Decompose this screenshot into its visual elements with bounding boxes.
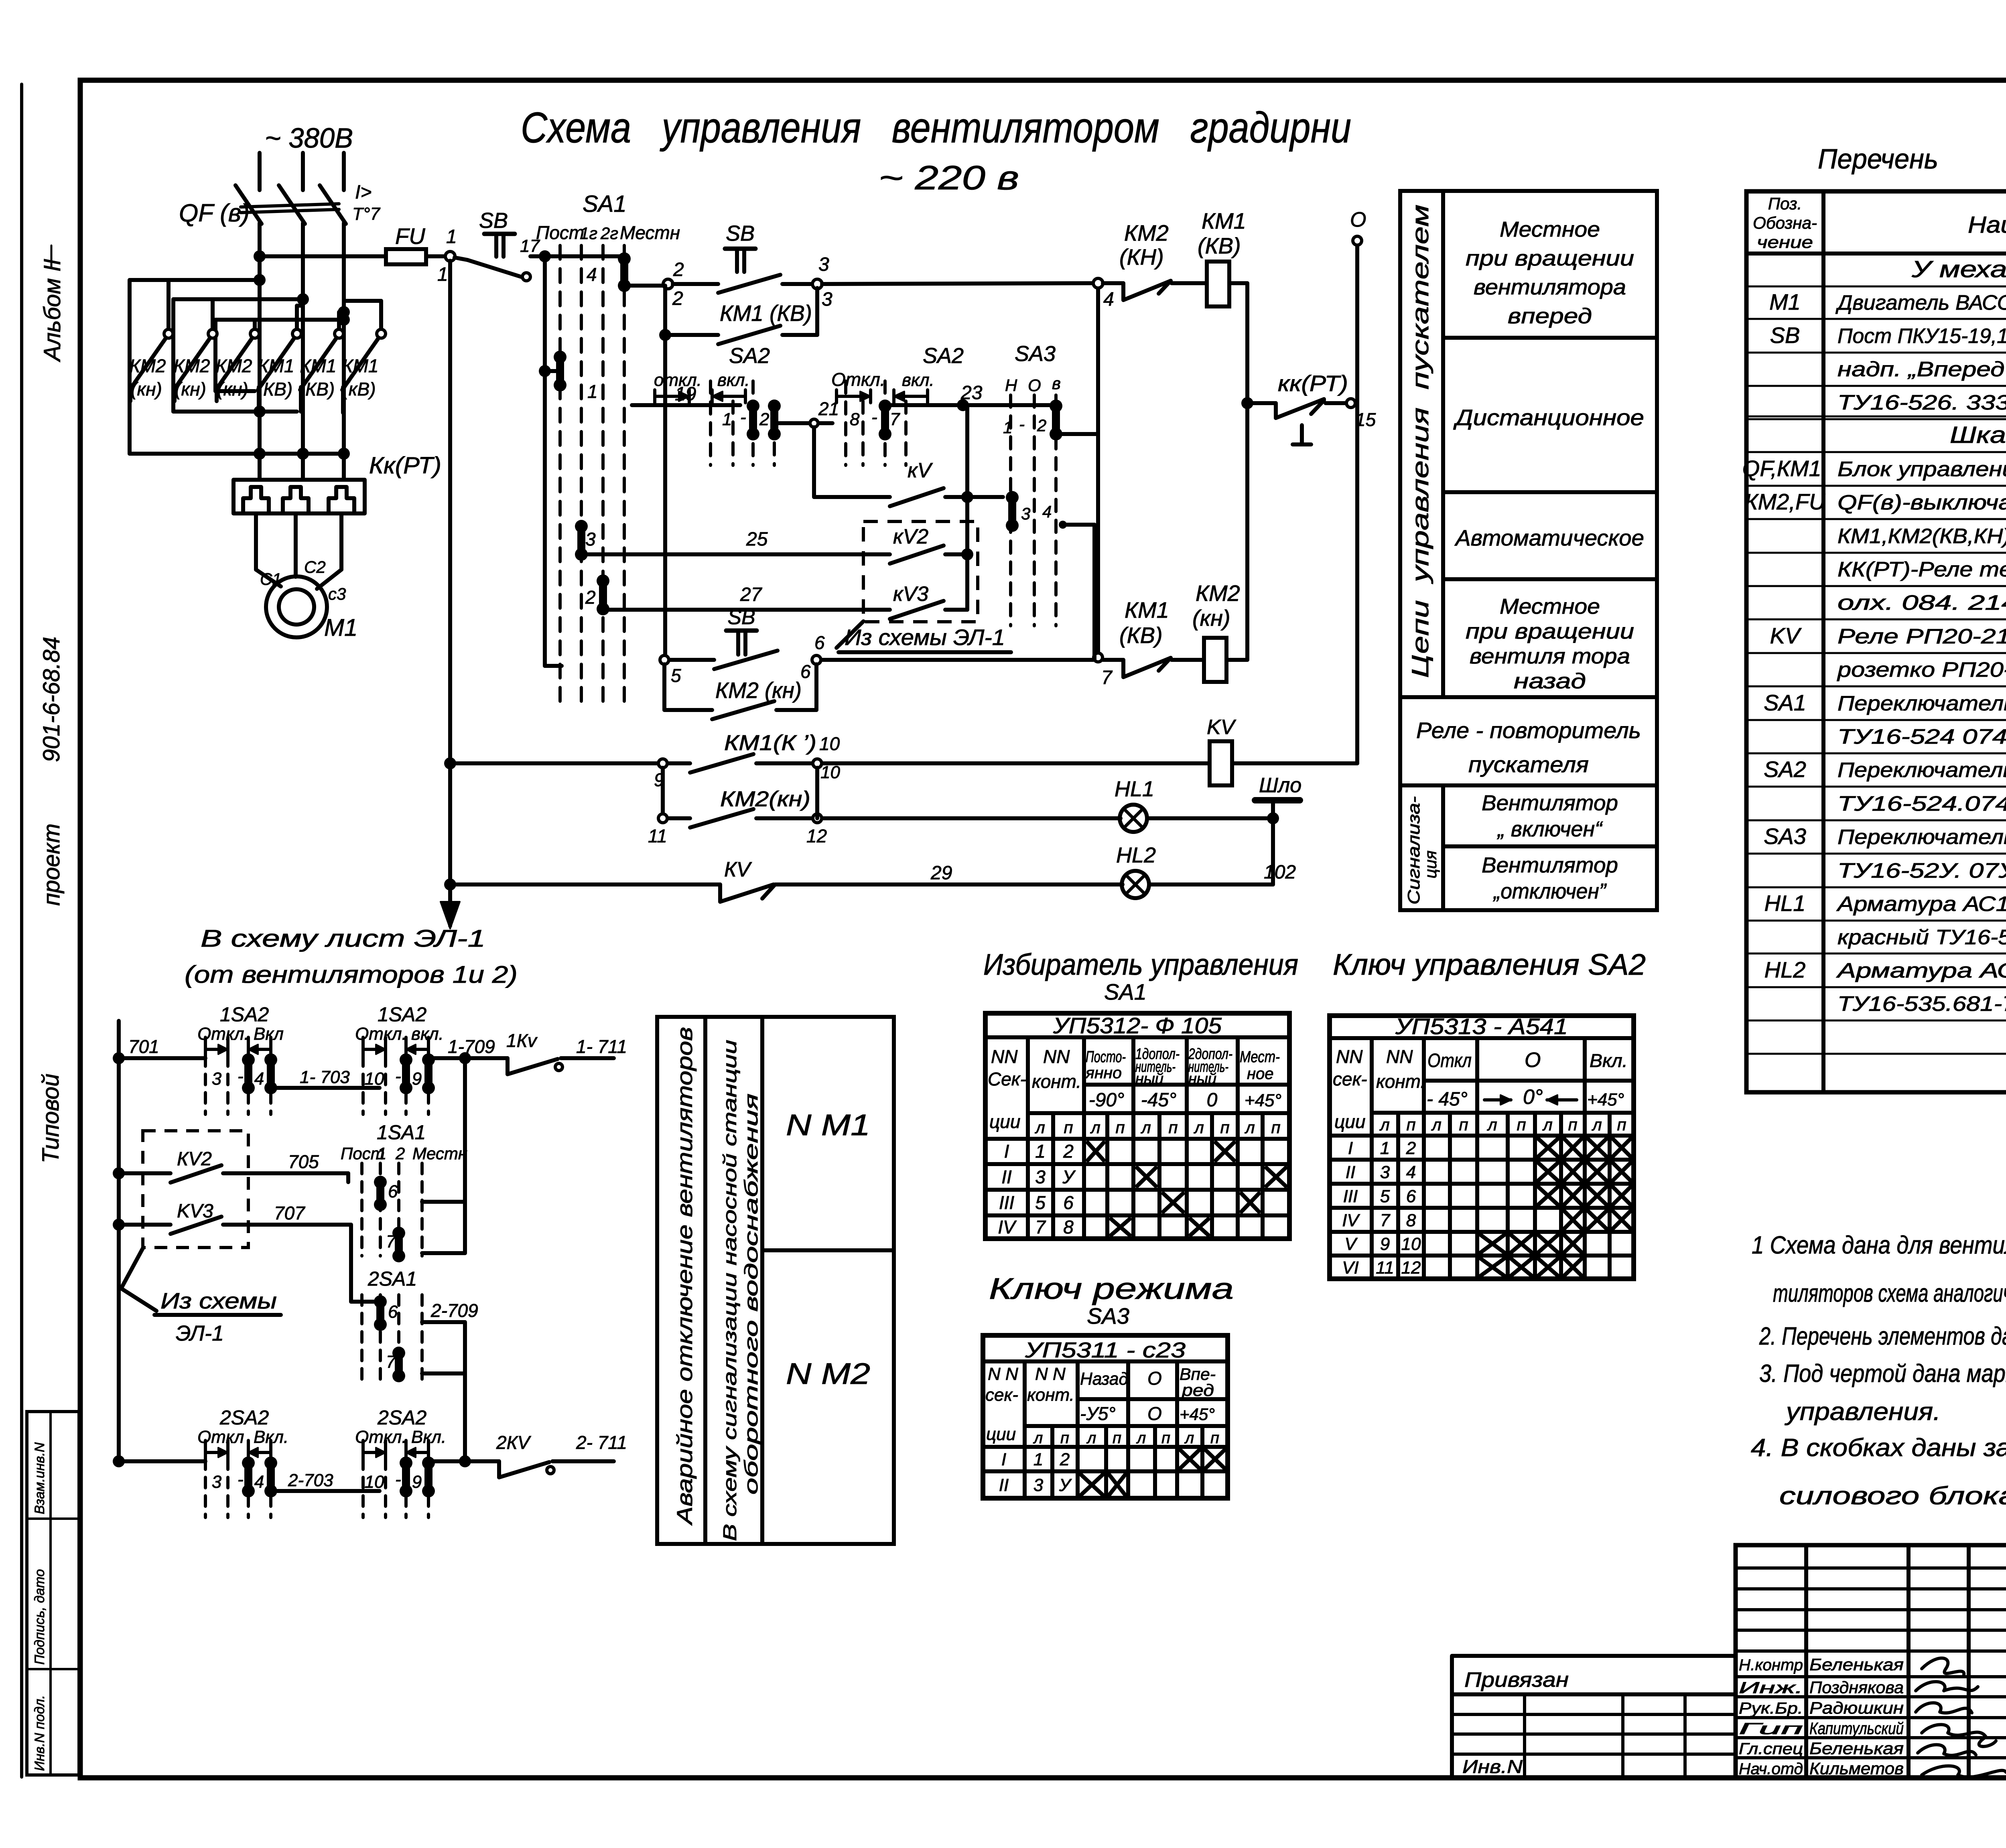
svg-text:сек-: сек- bbox=[1333, 1069, 1367, 1089]
svg-text:6: 6 bbox=[800, 661, 811, 682]
vertical SHLO to HL2 bbox=[1271, 818, 1275, 884]
svg-text:сек-: сек- bbox=[985, 1385, 1018, 1405]
title block left columns verticals bbox=[1804, 1545, 1808, 1778]
svg-text:М1: М1 bbox=[1769, 289, 1801, 314]
svg-text:7: 7 bbox=[1101, 667, 1113, 688]
svg-text:С2: С2 bbox=[304, 558, 326, 576]
push button SB (forward) bbox=[718, 275, 780, 293]
title block main frame bbox=[1736, 1545, 2006, 1778]
svg-text:2: 2 bbox=[673, 259, 684, 280]
svg-text:С1: С1 bbox=[260, 570, 282, 588]
power contact &#1050;&#1052;1(&#1050;&#1042;) #5 bbox=[337, 312, 341, 330]
svg-text:2: 2 bbox=[1406, 1138, 1416, 1158]
svg-text:Местное: Местное bbox=[1500, 594, 1600, 619]
node 12 bbox=[756, 816, 812, 820]
svg-text:„ включен“: „ включен“ bbox=[1497, 817, 1603, 841]
node 6 bbox=[812, 655, 821, 664]
SA2 right group dashed lines bbox=[844, 381, 847, 465]
svg-text:SB: SB bbox=[479, 209, 508, 233]
svg-text:102: 102 bbox=[1264, 862, 1296, 883]
thermal contact KK(RT) bbox=[1274, 403, 1278, 418]
title block upper small rows bbox=[1736, 1566, 2006, 1570]
svg-text:+45°: +45° bbox=[1587, 1090, 1624, 1110]
svg-text:-90°: -90° bbox=[1089, 1089, 1125, 1111]
svg-text:Арматура АС12013У2 ~ 220В,: Арматура АС12013У2 ~ 220В, bbox=[1836, 959, 2006, 982]
2SA1 contact 6 bbox=[376, 1302, 384, 1325]
svg-text:Двигатель ВАСО-10-19-16,ТУ16-5: Двигатель ВАСО-10-19-16,ТУ16-510,365-77 bbox=[1835, 291, 2006, 314]
svg-text:О: О bbox=[1525, 1049, 1541, 1072]
svg-text:п: п bbox=[1517, 1115, 1526, 1134]
wire to KM1 coil bbox=[1172, 281, 1207, 285]
svg-text:КМ1: КМ1 bbox=[1202, 208, 1246, 233]
svg-text:п: п bbox=[1617, 1115, 1626, 1134]
switch table SA2 frame bbox=[1330, 1016, 1634, 1279]
svg-text:п: п bbox=[1113, 1429, 1121, 1447]
svg-text:1: 1 bbox=[1033, 1450, 1043, 1469]
svg-text:п: п bbox=[1220, 1118, 1229, 1137]
svg-text:Вкл.: Вкл. bbox=[1590, 1050, 1628, 1071]
svg-text:ТУ16-524 074-75: ТУ16-524 074-75 bbox=[1837, 725, 2006, 749]
svg-text:л: л bbox=[1086, 1429, 1096, 1447]
wire: fuse to node 1 bbox=[426, 254, 446, 258]
svg-text:2SА1: 2SА1 bbox=[367, 1268, 417, 1290]
SA1 column lines bbox=[1026, 1037, 1030, 1239]
svg-text:ред: ред bbox=[1181, 1381, 1214, 1400]
contact KM2(KN) NC bbox=[1103, 281, 1123, 285]
svg-text:2: 2 bbox=[1060, 1450, 1070, 1469]
svg-text:HL2: HL2 bbox=[1764, 957, 1806, 982]
svg-text:при вращении: при вращении bbox=[1466, 246, 1634, 270]
svg-text:л: л bbox=[1542, 1115, 1553, 1134]
svg-text:N М2: N М2 bbox=[786, 1357, 870, 1390]
fuse FU bbox=[386, 249, 426, 264]
svg-text:КМ1: КМ1 bbox=[300, 355, 336, 376]
svg-text:I>: I> bbox=[355, 182, 372, 203]
svg-text:SА2: SА2 bbox=[729, 344, 770, 368]
svg-text:КМ1 (КВ): КМ1 (КВ) bbox=[720, 300, 812, 326]
svg-text:II: II bbox=[1346, 1162, 1355, 1182]
svg-text:в: в bbox=[1052, 374, 1061, 393]
wire SA3 to node4 drop bbox=[1056, 432, 1098, 436]
svg-text:SВ: SВ bbox=[726, 221, 755, 245]
element table column lines bbox=[1821, 191, 1825, 1092]
KM contact block cross-wiring bracket 2 bbox=[173, 297, 303, 301]
svg-text:Альбом II: Альбом II bbox=[39, 259, 65, 362]
svg-text:вентилятора: вентилятора bbox=[1474, 275, 1626, 299]
svg-text:2КV: 2КV bbox=[496, 1432, 532, 1453]
svg-text:Инж.: Инж. bbox=[1739, 1679, 1803, 1697]
svg-text:6: 6 bbox=[814, 632, 825, 653]
svg-text:3: 3 bbox=[212, 1472, 222, 1492]
svg-text:кV2: кV2 bbox=[893, 525, 928, 548]
svg-text:Беленькая: Беленькая bbox=[1809, 1739, 1904, 1758]
svg-text:Перечень: Перечень bbox=[1818, 143, 1938, 174]
svg-text:2г: 2г bbox=[600, 224, 618, 243]
SA2 header rows bbox=[1372, 1111, 1634, 1115]
svg-text:QF,КМ1,: QF,КМ1, bbox=[1742, 456, 1827, 481]
svg-text:Переключатель УП5312-Ф105У3рук: Переключатель УП5312-Ф105У3рук.овал bbox=[1837, 692, 2006, 715]
svg-text:2- 711: 2- 711 bbox=[576, 1432, 627, 1453]
svg-text:8: 8 bbox=[1063, 1217, 1074, 1237]
table fans M1 M2 frame bbox=[657, 1017, 894, 1544]
svg-text:Гл.спец: Гл.спец bbox=[1739, 1740, 1803, 1758]
svg-text:О: О bbox=[1147, 1368, 1162, 1389]
wire 2-703 bbox=[271, 1489, 380, 1493]
function table inner column bbox=[1441, 191, 1445, 697]
contact KM2(KN) signal bbox=[668, 816, 690, 820]
svg-text:1SА1: 1SА1 bbox=[377, 1121, 426, 1144]
svg-text:Реле РП20-211-У3, И~220в,: Реле РП20-211-У3, И~220в, bbox=[1837, 625, 2006, 648]
wire coil to vertical bbox=[1229, 281, 1247, 285]
svg-text:1г: 1г bbox=[580, 224, 597, 243]
svg-text:(кВ): (кВ) bbox=[342, 379, 376, 400]
svg-text:В схему лист ЭЛ-1: В схему лист ЭЛ-1 bbox=[201, 925, 485, 952]
KK(RT) heater slot at 851 bbox=[329, 487, 354, 513]
svg-text:при вращении: при вращении bbox=[1466, 619, 1634, 643]
svg-text:1- 711: 1- 711 bbox=[576, 1036, 627, 1057]
svg-text:4. В скобках даны заводские об: 4. В скобках даны заводские обозначения … bbox=[1751, 1434, 2006, 1462]
svg-text:Местн: Местн bbox=[620, 222, 680, 243]
svg-text:КМ2: КМ2 bbox=[129, 355, 166, 376]
svg-text:SА2: SА2 bbox=[923, 344, 964, 368]
svg-text:Позднякова: Позднякова bbox=[1809, 1678, 1904, 1697]
svg-text:23: 23 bbox=[960, 382, 983, 404]
vertical bus x2411 bbox=[965, 405, 969, 610]
svg-text:КМ2(кн): КМ2(кн) bbox=[720, 787, 810, 811]
label Iz skhemy EL-1 bbox=[837, 621, 863, 648]
svg-text:Из схемы ЭЛ-1: Из схемы ЭЛ-1 bbox=[845, 625, 1005, 650]
svg-text:розетко РП20-562У3, ТУ16-523.5: розетко РП20-562У3, ТУ16-523.578-79 bbox=[1837, 658, 2006, 682]
svg-text:1- 703: 1- 703 bbox=[300, 1067, 350, 1087]
junction rail row29 bbox=[444, 878, 456, 891]
svg-text:1 Схема дана для вентилятора 1: 1 Схема дана для вентилятора 1для осталь… bbox=[1752, 1231, 2006, 1259]
svg-text:чение: чение bbox=[1757, 233, 1813, 252]
wire row KM1(K) bbox=[450, 761, 658, 765]
privyazan table frame bbox=[1452, 1656, 1736, 1778]
svg-text:Посто-: Посто- bbox=[1086, 1048, 1126, 1066]
wire SB to node 3 bbox=[782, 282, 812, 286]
svg-text:Инв.N подл.: Инв.N подл. bbox=[32, 1695, 47, 1771]
SA1 contact Post bbox=[556, 357, 564, 385]
svg-text:707: 707 bbox=[274, 1203, 305, 1223]
svg-text:Цепи управления пускателем: Цепи управления пускателем bbox=[1407, 205, 1433, 678]
svg-text:III: III bbox=[999, 1192, 1015, 1213]
svg-text:10: 10 bbox=[1401, 1234, 1421, 1254]
svg-text:(от вентиляторов 1и 2): (от вентиляторов 1и 2) bbox=[185, 961, 518, 988]
svg-text:кV: кV bbox=[908, 459, 933, 482]
svg-text:2-703: 2-703 bbox=[288, 1471, 333, 1490]
SA1 data rows bbox=[985, 1162, 1289, 1166]
svg-text:У механиз ма: У механиз ма bbox=[1911, 256, 2006, 282]
lamp HL2 bbox=[1122, 871, 1149, 898]
svg-text:1: 1 bbox=[446, 226, 457, 247]
svg-text:КМ1(К ’): КМ1(К ’) bbox=[724, 731, 816, 755]
wire node6 to node7 bbox=[821, 658, 1093, 662]
rail 701 bbox=[117, 1021, 121, 1461]
wires 1SA1 to vertical bbox=[346, 1173, 350, 1182]
bottom wire row 2 bbox=[119, 1459, 205, 1463]
svg-text:ЭЛ-1: ЭЛ-1 bbox=[176, 1321, 224, 1345]
svg-text:-: - bbox=[871, 408, 877, 427]
svg-text:л: л bbox=[1431, 1115, 1442, 1134]
svg-text:В схему сигнализации насосной: В схему сигнализации насосной станции bbox=[719, 1040, 740, 1541]
svg-text:М1: М1 bbox=[324, 614, 357, 641]
svg-text:SА1: SА1 bbox=[1104, 979, 1147, 1004]
svg-text:кк(РТ): кк(РТ) bbox=[1278, 371, 1348, 396]
svg-text:Кк(РТ): Кк(РТ) bbox=[369, 452, 441, 479]
svg-text:3: 3 bbox=[818, 254, 829, 275]
wire KV coil to rail 0 bbox=[1232, 761, 1357, 765]
SA2 left group dashed lines bbox=[709, 381, 712, 465]
svg-text:NN: NN bbox=[991, 1046, 1018, 1067]
svg-text:красный ТУ16-535. 681-76: красный ТУ16-535. 681-76 bbox=[1837, 926, 2006, 949]
lamp HL1 bbox=[1120, 805, 1147, 832]
wire to KK(RT) contact bbox=[1247, 401, 1276, 405]
svg-text:Избиратель управления: Избиратель управления bbox=[983, 948, 1298, 981]
svg-text:КМ1: КМ1 bbox=[342, 355, 378, 376]
node 11 bbox=[658, 814, 667, 823]
wire 19 bbox=[632, 403, 740, 407]
contact KM1(K) bbox=[668, 761, 690, 765]
svg-text:10: 10 bbox=[820, 763, 840, 782]
SA2 data rows bbox=[1330, 1158, 1634, 1162]
svg-text:7: 7 bbox=[386, 1352, 396, 1372]
svg-text:-: - bbox=[238, 1067, 244, 1086]
arrow at rail bottom bbox=[441, 902, 460, 929]
svg-text:ТУ16-52У. 07У-75: ТУ16-52У. 07У-75 bbox=[1837, 859, 2006, 882]
node 10 bbox=[756, 761, 812, 765]
svg-text:SА1: SА1 bbox=[583, 191, 627, 217]
svg-text:кV3: кV3 bbox=[893, 582, 928, 606]
svg-text:Подпись, дато: Подпись, дато bbox=[32, 1569, 47, 1665]
phase line L1 top stub bbox=[258, 153, 262, 190]
svg-text:SА1: SА1 bbox=[1764, 690, 1806, 715]
svg-text:О: О bbox=[1350, 208, 1366, 231]
svg-text:(КВ): (КВ) bbox=[1119, 623, 1163, 648]
svg-text:Типовой: Типовой bbox=[38, 1074, 64, 1163]
svg-text:вентиля тора: вентиля тора bbox=[1470, 644, 1630, 668]
svg-text:29: 29 bbox=[930, 862, 952, 884]
svg-text:2SА2: 2SА2 bbox=[377, 1406, 427, 1429]
svg-text:NN: NN bbox=[1336, 1046, 1363, 1067]
svg-text:1: 1 bbox=[587, 381, 598, 402]
svg-text:Мест-: Мест- bbox=[1240, 1048, 1280, 1066]
svg-text:л: л bbox=[1244, 1118, 1255, 1137]
svg-text:7: 7 bbox=[890, 410, 900, 429]
svg-text:7: 7 bbox=[1380, 1211, 1391, 1230]
svg-text:назад: назад bbox=[1514, 669, 1586, 693]
1SA1 contact 6 bbox=[376, 1182, 384, 1205]
svg-text:HL2: HL2 bbox=[1116, 843, 1156, 867]
SA1 contact Mestn (closed) bbox=[620, 259, 628, 286]
svg-text:управления.: управления. bbox=[1785, 1398, 1941, 1426]
svg-text:л: л bbox=[1379, 1115, 1390, 1134]
svg-text:ное: ное bbox=[1247, 1065, 1274, 1083]
SA1 header rows bbox=[1028, 1111, 1289, 1115]
svg-text:Сигнализа-: Сигнализа- bbox=[1404, 796, 1423, 905]
svg-text:ции: ции bbox=[989, 1111, 1020, 1132]
svg-text:10: 10 bbox=[365, 1069, 384, 1089]
svg-text:л: л bbox=[1193, 1118, 1204, 1137]
svg-text:Арматура АС12011У2 ~220в, цвет: Арматура АС12011У2 ~220в, цвет bbox=[1836, 893, 2006, 916]
svg-text:Нач.отд: Нач.отд bbox=[1739, 1760, 1803, 1778]
wire 701 bbox=[119, 1056, 205, 1060]
svg-text:VI: VI bbox=[1342, 1258, 1359, 1278]
svg-text:12: 12 bbox=[806, 826, 827, 846]
svg-text:11: 11 bbox=[1376, 1258, 1394, 1278]
svg-text:1SА2: 1SА2 bbox=[220, 1003, 269, 1026]
svg-text:2-709: 2-709 bbox=[430, 1300, 478, 1321]
coil KM1(KV) bbox=[1207, 262, 1229, 306]
svg-text:1: 1 bbox=[722, 410, 732, 429]
svg-text:9: 9 bbox=[412, 1069, 422, 1089]
svg-text:л: л bbox=[1591, 1115, 1602, 1134]
power contact &#1050;&#1052;1(&#1050;&#1042;) #4 bbox=[295, 306, 299, 330]
svg-text:проект: проект bbox=[39, 824, 65, 906]
svg-text:HL1: HL1 bbox=[1115, 777, 1154, 801]
svg-text:Т°7: Т°7 bbox=[352, 204, 380, 224]
SA3 column lines bbox=[1023, 1361, 1027, 1498]
svg-text:SВ: SВ bbox=[1770, 323, 1800, 348]
vertical collector 1 bbox=[463, 1058, 467, 1253]
svg-text:Поз.: Поз. bbox=[1768, 194, 1802, 213]
wire 21 bbox=[774, 421, 809, 425]
svg-text:Взам.инв.N: Взам.инв.N bbox=[32, 1442, 47, 1514]
switch table SA1 frame bbox=[985, 1013, 1289, 1239]
svg-text:2. Перечень элементов дан на о: 2. Перечень элементов дан на один вентил… bbox=[1759, 1323, 2006, 1350]
svg-text:Привязан: Привязан bbox=[1464, 1668, 1569, 1692]
svg-text:УП5311 - с23: УП5311 - с23 bbox=[1025, 1338, 1186, 1362]
phase line L1 bbox=[258, 223, 262, 478]
svg-text:(кн): (кн) bbox=[131, 379, 162, 400]
svg-text:6: 6 bbox=[1063, 1192, 1074, 1213]
svg-text:8: 8 bbox=[1406, 1211, 1416, 1230]
svg-text:ции: ции bbox=[1334, 1111, 1365, 1132]
svg-text:Вентилятор: Вентилятор bbox=[1482, 853, 1618, 877]
svg-text:1: 1 bbox=[377, 1144, 386, 1163]
KM block lower join 1 bbox=[215, 389, 255, 393]
svg-text:л: л bbox=[1486, 1115, 1497, 1134]
SA1 dashed section line Post bbox=[558, 245, 562, 704]
svg-text:3: 3 bbox=[822, 289, 832, 310]
svg-text:SА3: SА3 bbox=[1764, 824, 1806, 849]
power contact &#1050;&#1052;2(&#1082;&#1085;) #3 bbox=[253, 320, 257, 330]
svg-text:6: 6 bbox=[388, 1182, 398, 1201]
svg-text:11: 11 bbox=[648, 826, 667, 846]
svg-text:2: 2 bbox=[759, 410, 769, 429]
svg-text:2SА2: 2SА2 bbox=[219, 1406, 269, 1429]
wire rail to Post contact bbox=[545, 369, 560, 373]
svg-text:1: 1 bbox=[1380, 1138, 1390, 1158]
svg-text:N N: N N bbox=[1035, 1364, 1066, 1384]
svg-text:л: л bbox=[1184, 1429, 1194, 1447]
junction rail row9 bbox=[444, 757, 456, 769]
svg-text:12: 12 bbox=[1401, 1258, 1421, 1278]
svg-text:4: 4 bbox=[1103, 289, 1114, 310]
coil KV bbox=[1210, 741, 1232, 785]
SA1 dashed section line Mestn bbox=[623, 245, 626, 704]
phase line L2 top stub bbox=[301, 153, 305, 190]
node 5 bbox=[660, 655, 669, 664]
svg-text:II: II bbox=[999, 1475, 1009, 1495]
svg-text:ный: ный bbox=[1135, 1071, 1163, 1087]
vertical 10-12 bbox=[815, 768, 819, 818]
svg-text:Наименование: Наименование bbox=[1968, 212, 2006, 238]
svg-text:Обозна-: Обозна- bbox=[1753, 213, 1817, 232]
wire node 3 to node 4 bbox=[822, 283, 1093, 284]
svg-text:Рук.Бр.: Рук.Бр. bbox=[1739, 1700, 1803, 1717]
svg-text:Откл.: Откл. bbox=[831, 369, 885, 390]
svg-text:901-6-68.84: 901-6-68.84 bbox=[39, 637, 65, 762]
junction KK row bbox=[1241, 397, 1253, 409]
svg-text:Вкл: Вкл bbox=[254, 1024, 284, 1044]
SA3 data rows bbox=[983, 1469, 1228, 1473]
wire 1-709 bbox=[428, 1056, 508, 1060]
svg-text:п: п bbox=[1168, 1118, 1178, 1137]
node: control tap on L1 bbox=[254, 250, 266, 262]
svg-text:п: п bbox=[1459, 1115, 1468, 1134]
svg-text:Ключ режима: Ключ режима bbox=[989, 1272, 1234, 1305]
SA2 column lines bbox=[1370, 1038, 1374, 1279]
node 3 bbox=[812, 279, 822, 289]
svg-text:2: 2 bbox=[1063, 1141, 1074, 1162]
push button SB (reverse) bbox=[669, 658, 714, 662]
svg-text:Дистанционное: Дистанционное bbox=[1453, 405, 1644, 430]
svg-text:1: 1 bbox=[1003, 418, 1012, 437]
svg-text:KV3: KV3 bbox=[177, 1201, 213, 1222]
svg-text:- 45°: - 45° bbox=[1427, 1089, 1468, 1110]
SA2 left group arrows bbox=[655, 395, 689, 398]
KM block lower join 2 bbox=[173, 410, 297, 414]
signature squiggles bbox=[1922, 1658, 1964, 1675]
dashed box KV2 KV3 (from ЭЛ-1) bbox=[863, 521, 978, 622]
svg-text:5: 5 bbox=[1035, 1192, 1046, 1213]
SA1 contact 3 bbox=[577, 526, 585, 554]
svg-text:Переключатель УП5313-А541У3,ру: Переключатель УП5313-А541У3,рук. рев. bbox=[1837, 759, 2006, 782]
SA1 title row bbox=[985, 1035, 1289, 1039]
svg-text:Назад: Назад bbox=[1080, 1369, 1128, 1389]
svg-text:с3: с3 bbox=[328, 584, 346, 603]
node 1 bbox=[445, 252, 455, 261]
svg-text:4: 4 bbox=[254, 1069, 264, 1089]
wire row HL1 bbox=[822, 816, 1121, 820]
svg-text:Инв.N: Инв.N bbox=[1462, 1756, 1523, 1777]
svg-text:О: О bbox=[1147, 1403, 1162, 1424]
svg-text:9: 9 bbox=[412, 1472, 422, 1492]
coil KM2(KN) bbox=[1204, 638, 1226, 682]
svg-text:N М1: N М1 bbox=[786, 1108, 870, 1142]
wire Mestn contact to node 2 bbox=[624, 284, 665, 288]
svg-text:SА2: SА2 bbox=[1764, 757, 1806, 782]
svg-text:Гип: Гип bbox=[1739, 1720, 1803, 1738]
svg-text:КМ1: КМ1 bbox=[1125, 597, 1169, 623]
push button SB (stop) bbox=[455, 258, 467, 260]
node 7 bbox=[1094, 653, 1102, 662]
svg-text:КМ2 (кн): КМ2 (кн) bbox=[715, 678, 802, 703]
rail 0 bbox=[1355, 241, 1359, 763]
svg-text:Кильметов: Кильметов bbox=[1809, 1759, 1904, 1778]
svg-text:Переключатель УП5 311-с рук. о: Переключатель УП5 311-с рук. овал bbox=[1837, 826, 2006, 849]
svg-text:(КВ): (КВ) bbox=[257, 379, 292, 400]
svg-text:Пост: Пост bbox=[536, 222, 584, 243]
phase line L3 top stub bbox=[342, 153, 346, 190]
wire node2 to SB forward bbox=[673, 282, 718, 286]
svg-text:тиляторов схема аналогична.: тиляторов схема аналогична. bbox=[1773, 1280, 2006, 1307]
SA1 dashed section line 1g bbox=[580, 245, 583, 704]
vertical node 4 to node 7 bbox=[1096, 283, 1100, 657]
svg-text:1Кv: 1Кv bbox=[506, 1030, 538, 1051]
svg-text:1: 1 bbox=[437, 264, 448, 285]
